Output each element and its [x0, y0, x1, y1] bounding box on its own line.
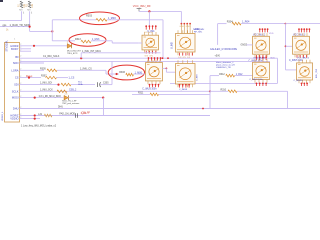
svg-text:VCC_IMU_RF: VCC_IMU_RF — [133, 4, 151, 8]
svg-text:1_IMU_CS: 1_IMU_CS — [80, 67, 92, 70]
junction VCC bus A — [148, 10, 150, 12]
svg-text:C_IMU9 100n: C_IMU9 100n — [249, 79, 263, 81]
wire vertical x210 — [209, 76, 211, 109]
svg-text:U_IM8: U_IM8 — [196, 74, 198, 81]
svg-text:1_CS: 1_CS — [69, 78, 75, 80]
wire U2 top pin 3 stub — [186, 24, 188, 34]
wire R2 down through junction — [29, 11, 31, 31]
svg-text:SCLK: SCLK — [12, 89, 19, 93]
svg-text:R305: R305 — [40, 67, 46, 70]
pin numbers (red) bottom of U9 — [256, 83, 267, 87]
power symbol VCC_IMU_RF — [137, 8, 142, 11]
svg-text:VDD: VDD — [270, 57, 275, 59]
pin numbers (red) top of U9 — [256, 57, 267, 60]
wire top bus into R3 — [52, 19, 96, 21]
svg-text:VCC IMU_S: VCC IMU_S — [297, 57, 309, 59]
annotation ellipse 3 (around R6) — [108, 65, 144, 80]
wire into U1 left pin — [139, 42, 142, 44]
wire vertical x103 down — [103, 98, 105, 116]
wire bus y83 across — [170, 82, 278, 84]
wire CS pin — [20, 77, 42, 79]
accelerometer U9 (IC) — [253, 59, 270, 83]
svg-text:C3 1_RF_MCU_SDO: C3 1_RF_MCU_SDO — [39, 96, 61, 98]
wire U6 right pin a — [163, 67, 167, 69]
wire into U1 — [112, 42, 139, 44]
svg-text:R312: R312 — [219, 74, 225, 76]
junction bus1 x81 — [80, 57, 82, 59]
svg-text:1 Low_freq_IMU_MCU_radar_v2: 1 Low_freq_IMU_MCU_radar_v2 — [21, 124, 57, 127]
wire vertical node A — [51, 20, 53, 41]
sheet corner mark — [0, 0, 3, 2]
wire bus6 (y115) across — [20, 115, 211, 117]
svg-text:R313: R313 — [75, 38, 81, 41]
wire R10 out to x287 — [237, 90, 288, 92]
wire jog up from bus1 — [80, 53, 82, 58]
transceiver U2 (IC) — [176, 30, 196, 55]
svg-text:GN GN: GN GN — [145, 55, 154, 57]
wire bus3 SCLK long — [20, 90, 211, 92]
wire R8 out — [71, 84, 95, 86]
wire vertical x163 down to bus1 — [162, 20, 164, 58]
wire branch down to U7 — [285, 24, 287, 70]
gyroscope U10 (IC) — [297, 60, 313, 83]
wire jog down to ellipse3 row — [105, 70, 107, 74]
junction top-right branch — [285, 23, 287, 25]
svg-text:C305: C305 — [103, 83, 109, 85]
pin numbers (red) top of U4 — [259, 28, 269, 32]
wire LORA pin — [20, 69, 45, 71]
wire SDI pin — [20, 84, 59, 86]
junction bus5 x203 — [202, 108, 204, 110]
wire HORIZ pin — [20, 45, 68, 47]
resistor R2 (vertical, top-left) — [26, 1, 35, 14]
wire pin stub y51 — [20, 50, 32, 52]
svg-text:1_RF: 1_RF — [81, 112, 87, 115]
capacitor C1 — [98, 82, 101, 87]
op-amp U1 (IC, top-middle) — [142, 32, 159, 53]
svg-text:1_IMU_SDI: 1_IMU_SDI — [40, 83, 52, 85]
wire MOSI pin — [20, 97, 64, 99]
wire to vertical node — [30, 30, 53, 32]
svg-text:RF_SEL: RF_SEL — [194, 32, 203, 34]
svg-text:C1_IMU_SCLK: C1_IMU_SCLK — [43, 55, 60, 58]
wire VDDIO pin stub — [20, 118, 41, 120]
wire corner to R12 — [210, 75, 219, 77]
svg-text:CSB_2: CSB_2 — [69, 89, 77, 91]
junction x103 — [102, 97, 104, 99]
wire jog down — [111, 41, 113, 43]
wire VCC branch down to U1 top pins — [148, 11, 150, 27]
svg-text:LSM6DSO_TR: LSM6DSO_TR — [216, 67, 231, 69]
svg-text:PAD_1M_MOD: PAD_1M_MOD — [59, 113, 75, 116]
svg-text:DHU: DHU — [13, 107, 19, 111]
wire R7 out — [57, 77, 69, 79]
wire vertical from corner down to row — [217, 24, 219, 45]
pin numbers (red) top of U5 — [298, 28, 310, 32]
svg-text:VDD: VDD — [269, 33, 274, 35]
wire jog down — [165, 68, 167, 72]
wire R1 down — [21, 11, 23, 20]
wire to right edge — [286, 23, 320, 25]
wire corner to R4 — [218, 23, 227, 25]
wire bus4 (y94) — [159, 93, 211, 95]
wire U2 top pin 1 stub — [180, 24, 182, 34]
pin numbers (red) top of U1 — [145, 25, 156, 29]
svg-text:CS: CS — [15, 76, 19, 80]
svg-text:SDO: SDO — [13, 61, 19, 65]
junction vertical node A — [51, 30, 53, 32]
junction U2 top pin 4 — [189, 23, 191, 25]
resistor R12 zigzag — [226, 74, 235, 77]
resistor R9 zigzag — [57, 90, 67, 93]
wire into R11 — [132, 93, 150, 95]
wire R4 out to branch — [241, 23, 286, 25]
svg-text:1_RAD_TR_MOD: 1_RAD_TR_MOD — [10, 23, 31, 27]
wire vertical x277 down — [277, 58, 279, 83]
resistor R3 zigzag — [96, 19, 107, 22]
wire bus1 (y58) across — [20, 57, 278, 59]
svg-text:LORA: LORA — [11, 68, 18, 72]
svg-text:SDI: SDI — [14, 83, 19, 87]
resistor R7 zigzag — [46, 76, 57, 79]
wire D2 out — [68, 97, 103, 99]
junction VDDIO x34 — [34, 118, 36, 120]
wire R6 to U6 left pin — [134, 73, 146, 75]
junction in ellipse 3 — [116, 73, 118, 75]
svg-text:B0: B0 — [15, 55, 19, 59]
wire into U7 left pin — [286, 69, 297, 71]
wire R3 out to vertical x163 — [107, 19, 163, 21]
wire bus5 (y108) across — [20, 108, 320, 110]
junction bus6 x34 — [34, 114, 36, 116]
pin numbers (red) bottom of U10 — [301, 83, 308, 87]
inductor L31 squiggle — [44, 114, 52, 117]
annotation ellipse 1 (around R3) — [80, 12, 120, 25]
junction bus3 x210 — [209, 90, 211, 92]
wire node A to R13 — [52, 40, 75, 42]
junction U6 right — [166, 68, 168, 70]
magnetometer U6 (IC) — [146, 59, 163, 84]
svg-text:R306: R306 — [119, 71, 125, 74]
resistor R13 zigzag — [81, 40, 91, 43]
pin numbers (red) bottom of U6 — [149, 84, 160, 88]
junction bus1 x168 — [167, 57, 169, 59]
svg-text:BODY: BODY — [11, 47, 19, 51]
junction bus1 x162 — [162, 57, 164, 59]
junction SDI x58 — [57, 84, 59, 86]
svg-text:MOSI: MOSI — [12, 96, 19, 100]
wire y52.8 to U1 area — [81, 52, 160, 54]
svg-text:TRIG_EXTI: TRIG_EXTI — [67, 53, 78, 55]
wire R5 out — [57, 69, 106, 71]
wire vertical x112 — [111, 61, 113, 84]
svg-text:TMP_pad_antenna: TMP_pad_antenna — [62, 102, 80, 105]
svg-text:STM32WL: STM32WL — [6, 40, 9, 52]
svg-text:+5V0: +5V0 — [215, 55, 221, 57]
pin numbers (red) bottom of U4 — [257, 55, 267, 58]
MCU U3 block (left hierarchical block) — [5, 43, 20, 123]
annotation ellipse 2 (around R13) — [69, 34, 106, 46]
junction on CS wire — [28, 77, 30, 79]
wire U2 top pin 4 stub — [189, 24, 191, 34]
svg-text:C_IMU3 100n: C_IMU3 100n — [142, 88, 157, 90]
wire R13 out — [91, 40, 112, 42]
svg-text:C_IMU10: C_IMU10 — [294, 80, 304, 82]
svg-text:1_IMU_SCK: 1_IMU_SCK — [40, 89, 53, 91]
pin numbers (red) bottom of U5 — [297, 55, 307, 58]
buffer/diode D2 (triangle symbol) — [64, 95, 68, 100]
wire dot to R10 — [210, 90, 228, 92]
svg-text:DHU: DHU — [58, 107, 63, 109]
pin numbers (red) top of U6 — [148, 57, 162, 61]
resistor R10 zigzag — [228, 90, 237, 93]
wire vertical x287 down to bus5 — [287, 91, 289, 108]
svg-text:U_IM2: U_IM2 — [172, 42, 174, 49]
svg-text:C_IMU8: C_IMU8 — [179, 89, 188, 91]
wire bus2 (y61) across — [20, 60, 271, 62]
accelerometer U4 (IC) — [253, 33, 270, 57]
wire R1 to left edge — [0, 20, 22, 22]
pin numbers (red) bottom of U8 — [179, 84, 190, 88]
wire R12 to U6 left pin — [235, 75, 253, 77]
capacitor C2 — [76, 113, 78, 118]
svg-text:R303: R303 — [86, 15, 93, 18]
wire stub into U4 left pin — [247, 44, 253, 46]
svg-text:1_IMU_INT_MCU: 1_IMU_INT_MCU — [82, 50, 101, 53]
svg-text:2: 2 — [20, 56, 21, 58]
resistor R11 zigzag — [150, 93, 159, 96]
junction R2/net — [29, 26, 31, 28]
svg-text:SDA: SDA — [78, 83, 83, 86]
svg-text:GALILEO_GYROSCOPE: GALILEO_GYROSCOPE — [210, 48, 237, 51]
pin numbers (red) bottom of U2 — [180, 53, 193, 56]
wire SDO pin stub — [20, 62, 45, 64]
pressure sensor U8 (IC) — [176, 60, 196, 87]
wire into U8 left pin — [166, 71, 175, 73]
wire into U5 left pin — [286, 45, 293, 47]
buffer/diode D1 (triangle symbol) — [67, 44, 71, 49]
wire U2 top pin 2 stub — [183, 24, 185, 34]
junction U2 top pin 3 — [186, 23, 188, 25]
svg-text:VDDIO_1: VDDIO_1 — [2, 111, 4, 121]
wire BODY pin stub — [20, 48, 32, 50]
junction branch to U5 — [285, 45, 287, 47]
svg-text:U_IM1: U_IM1 — [148, 30, 156, 33]
wire C1 out to x112 — [101, 84, 113, 86]
wire VCC bus A down to U2 top pins — [180, 11, 182, 23]
wire net 1_RAD_TR_MOD horizontal — [0, 26, 30, 28]
resistor R6 zigzag — [126, 73, 134, 76]
resistor R5 zigzag — [47, 69, 57, 72]
resistor R1 (vertical, top-left) — [17, 1, 26, 14]
resistor R8 zigzag — [61, 83, 71, 86]
svg-text:VDDIO: VDDIO — [10, 117, 18, 121]
svg-text:IMU_3V3: IMU_3V3 — [316, 68, 318, 78]
gyroscope U5 (IC) — [293, 33, 310, 57]
junction U2 top pin 1 — [181, 23, 183, 25]
junction on HORIZ wire — [33, 45, 35, 47]
svg-text:C_IMU5 100n: C_IMU5 100n — [289, 60, 304, 62]
wire into ellipse 3 — [106, 73, 119, 75]
resistor R4 zigzag — [232, 22, 241, 25]
junction U2 top pin 2 — [183, 23, 185, 25]
pin numbers (red) bottom of U1 — [146, 51, 156, 54]
junction MOSI x34 — [34, 97, 36, 99]
wire VCC bus A horizontal — [139, 10, 181, 12]
